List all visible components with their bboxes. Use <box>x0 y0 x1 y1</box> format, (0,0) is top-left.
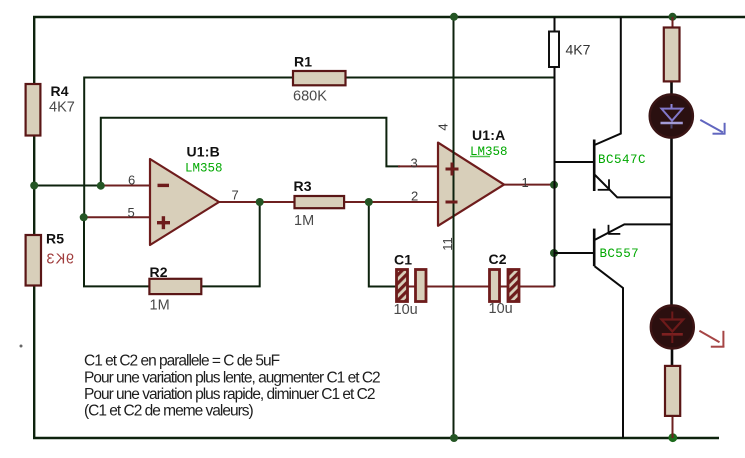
svg-text:LM358: LM358 <box>185 162 223 176</box>
resistor R5 <box>26 235 41 286</box>
junction node led bottom <box>668 433 677 442</box>
wire led chain <box>670 81 673 96</box>
svg-text:R2: R2 <box>150 264 168 280</box>
wire R2 right <box>201 202 259 286</box>
svg-text:11: 11 <box>440 237 455 251</box>
wire pin6 stub <box>100 185 150 187</box>
wire pin3 stub <box>398 165 438 167</box>
svg-text:Pour une variation plus rapide: Pour une variation plus rapide, diminuer… <box>84 386 375 403</box>
capacitor C2 <box>490 270 500 302</box>
underline LM358 <box>470 156 490 158</box>
wire R3node to C1 <box>369 202 397 287</box>
junction node pin5 <box>80 213 88 221</box>
svg-text:6: 6 <box>128 173 135 188</box>
svg-text:10u: 10u <box>489 301 513 317</box>
svg-text:BC547C: BC547C <box>598 153 646 167</box>
svg-text:1M: 1M <box>294 213 314 229</box>
svg-text:4K7: 4K7 <box>566 42 591 58</box>
svg-text:K: K <box>55 252 65 268</box>
capacitor C1 <box>397 270 408 302</box>
svg-text:R1: R1 <box>294 54 312 70</box>
svg-text:3: 3 <box>46 252 54 268</box>
wire pin6 net <box>34 185 104 187</box>
svg-text:C1: C1 <box>394 252 412 268</box>
resistor D2 series <box>665 366 680 416</box>
transistor Q2 BC557 <box>555 224 672 438</box>
wire C2 right to node <box>519 286 555 288</box>
wire bottom rail <box>33 437 719 439</box>
resistor R1 <box>293 71 346 85</box>
LED D2 red <box>651 306 694 349</box>
junction node output1 <box>550 181 558 189</box>
wire C1 to C2 <box>426 286 490 288</box>
LED D1 blue <box>650 94 693 137</box>
svg-text:2: 2 <box>411 189 418 204</box>
junction node output7 <box>256 198 264 206</box>
junction node top power <box>450 13 458 21</box>
wire C1 mid <box>408 286 416 288</box>
transistor Q1 BC547C <box>555 17 672 197</box>
wire power vertical through U1:A <box>453 17 455 438</box>
svg-text:U1:A: U1:A <box>472 127 505 143</box>
junction node feedback tap <box>97 182 105 190</box>
arrow blue <box>700 120 725 134</box>
resistor R2 <box>149 279 201 294</box>
op-amp U1:B <box>150 159 219 245</box>
label R5 value 3K9 mirrored <box>46 252 74 268</box>
op-amp U1:A <box>438 143 504 226</box>
junction node pin6 <box>30 182 38 190</box>
wire top rail <box>33 16 745 18</box>
svg-text:4: 4 <box>436 123 451 130</box>
svg-text:680K: 680K <box>293 89 327 105</box>
svg-text:1M: 1M <box>150 298 170 314</box>
svg-text:9: 9 <box>66 252 74 268</box>
wire feedback to pin3 <box>101 118 400 186</box>
svg-text:Pour une variation plus lente,: Pour une variation plus lente, augmenter… <box>84 369 380 386</box>
svg-text:1: 1 <box>522 175 529 190</box>
svg-text:(C1 et C2 de meme valeurs): (C1 et C2 de meme valeurs) <box>84 403 254 420</box>
resistor R3 <box>295 196 345 208</box>
wire output1 stub <box>504 184 555 186</box>
svg-text:R4: R4 <box>51 83 69 99</box>
resistor D1 series <box>664 28 680 82</box>
wire left rail <box>33 17 35 438</box>
wire R1 right to node <box>346 77 555 79</box>
svg-text:5: 5 <box>128 205 135 220</box>
junction node led top <box>669 13 677 21</box>
wire C2 mid <box>500 286 509 288</box>
junction node R3 right <box>365 198 373 206</box>
svg-text:BC557: BC557 <box>600 247 640 261</box>
note text <box>84 353 380 420</box>
junction node bottom power <box>450 434 458 442</box>
svg-text:U1:B: U1:B <box>187 144 220 160</box>
svg-text:C1 et C2 en parallele = C de 5: C1 et C2 en parallele = C de 5uF <box>84 353 280 370</box>
svg-text:4K7: 4K7 <box>49 100 75 116</box>
svg-text:7: 7 <box>232 188 239 203</box>
junction node base557 <box>550 249 558 257</box>
wire pin5 stub <box>84 216 150 218</box>
svg-text:R3: R3 <box>294 178 312 194</box>
wire R2 left <box>84 217 149 286</box>
wire output7 to R3 to pin2 <box>219 201 438 203</box>
svg-text:C2: C2 <box>489 251 507 267</box>
svg-text:3: 3 <box>411 156 418 171</box>
stray mark <box>20 345 23 348</box>
svg-text:R5: R5 <box>46 231 64 247</box>
arrow red <box>699 331 724 347</box>
svg-text:10u: 10u <box>394 302 418 318</box>
resistor R4 <box>26 84 41 136</box>
resistor 4K7 pullup <box>554 17 556 32</box>
wire R1 left vertical <box>84 78 293 218</box>
wire black node column <box>554 78 556 287</box>
